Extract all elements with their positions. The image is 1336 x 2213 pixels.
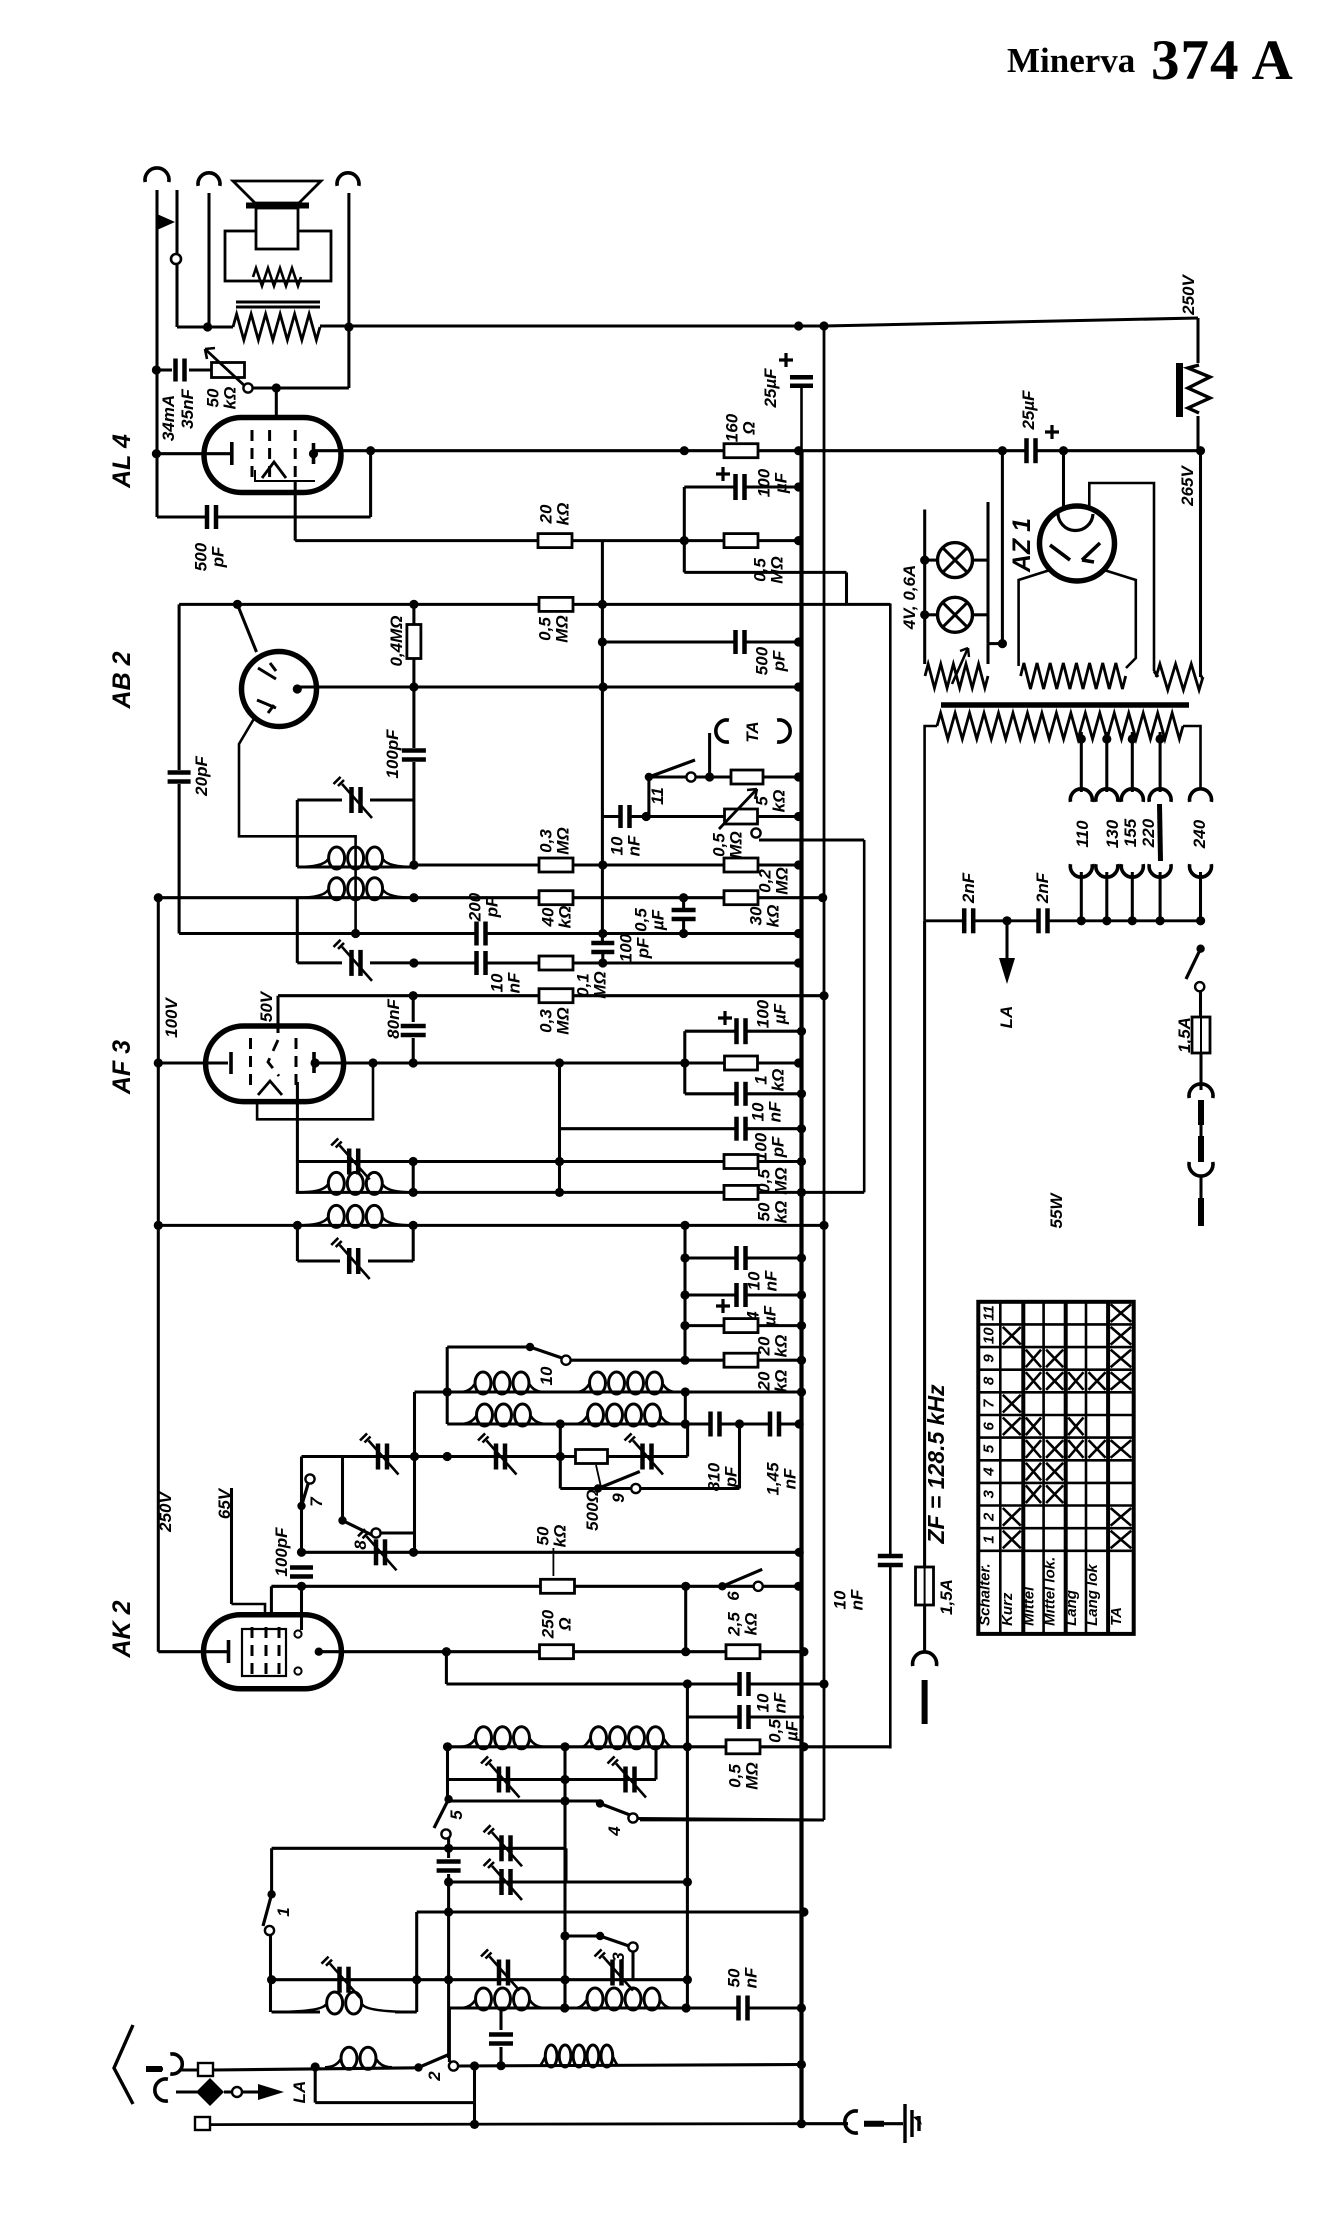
wire 0.5uF2 branch (686, 1684, 689, 1717)
wire AB2 return row (684, 571, 846, 574)
wire screen 50V row (278, 994, 824, 997)
wire bypass right (473, 2066, 476, 2125)
wire tap 130 upper (1105, 732, 1108, 792)
wire sw8 out (380, 1531, 415, 1534)
label 500pF (191, 542, 227, 571)
svg-text:1,5A: 1,5A (1175, 1017, 1194, 1053)
junction (152, 365, 161, 374)
capacitor 100uF cathode (735, 474, 746, 500)
svg-text:1,5A: 1,5A (937, 1579, 956, 1615)
wire circle to arrow (242, 2090, 258, 2093)
wire trim pair row a (449, 1847, 566, 1850)
wire AL4 grid row (295, 539, 798, 542)
resistor 2.5k (726, 1645, 760, 1659)
svg-text:25µF: 25µF (1019, 390, 1038, 431)
wire band row left col (415, 1912, 418, 1980)
svg-text:500pF: 500pF (752, 646, 788, 675)
table headers (976, 1557, 1125, 1626)
label 160 (722, 413, 758, 442)
junction rail 603 (598, 600, 607, 609)
wire sw10 feed (447, 1345, 530, 1348)
junction 265V (1196, 446, 1205, 455)
leader 500ohm (596, 1465, 601, 1487)
wire 20k a row (685, 1324, 802, 1327)
wire AVC row (179, 932, 799, 935)
wire left rail mid (157, 898, 160, 1652)
svg-text:250V: 250V (1179, 273, 1198, 315)
ground connector hook (845, 2111, 858, 2133)
wire IF1 right column b (412, 762, 415, 867)
junction (409, 1548, 418, 1557)
tube AL4 grid2 dash (268, 430, 271, 481)
switch 6 (718, 1582, 726, 1590)
svg-text:11: 11 (980, 1305, 997, 1321)
wire right col to row2 (686, 1980, 689, 2008)
wire 25uF2 to heater (1001, 451, 1004, 644)
svg-text:265V: 265V (1178, 464, 1197, 506)
mains plug pin left (922, 1680, 928, 1724)
wire IF2 trim2 right (368, 1259, 413, 1262)
label 0.2M (755, 867, 791, 894)
switch 3 (596, 1932, 604, 1940)
junction TA (705, 772, 714, 781)
resistor 1k (725, 1056, 758, 1070)
wire IF2 pri loop right (412, 1225, 415, 1261)
label 1k (751, 1069, 787, 1092)
wire mains left lead (923, 921, 926, 1567)
wire connector mid (1199, 1125, 1202, 1136)
tube AK2 cathode (227, 1640, 231, 1663)
tube AL4 envelope (204, 418, 341, 493)
switch 8 (338, 1516, 346, 1524)
svg-text:Kurz: Kurz (999, 1592, 1016, 1626)
pot 0.5M wiper circle (751, 828, 760, 837)
svg-text:20kΩ: 20kΩ (754, 1370, 790, 1393)
junction (681, 1387, 690, 1396)
capacitor 35nF (175, 359, 186, 382)
capacitor 80nF (401, 1025, 426, 1036)
wire AL4 anode row (314, 449, 1201, 452)
resistor 30k (724, 891, 758, 905)
svg-text:220: 220 (1139, 818, 1158, 848)
junction (680, 1253, 689, 1262)
tube AK2 grid pin top (294, 1630, 301, 1637)
label 1.45nF (763, 1462, 799, 1496)
junction (556, 1452, 565, 1461)
label 500pF no2 (752, 646, 788, 675)
svg-text:100pF: 100pF (272, 1527, 291, 1577)
junction (560, 2003, 569, 2012)
svg-text:9: 9 (609, 1493, 628, 1503)
svg-text:5: 5 (447, 1810, 466, 1820)
wire anode branch (445, 1652, 448, 1684)
wire IF1 trim2 right (370, 961, 414, 964)
svg-text:30kΩ: 30kΩ (746, 905, 782, 928)
svg-text:110: 110 (1073, 820, 1092, 848)
mains plug pin right (1198, 1198, 1204, 1226)
label 25uF no2 (1019, 390, 1038, 431)
wire mid col rf (563, 1747, 566, 2008)
junction (496, 2061, 505, 2070)
resistor 160 (724, 444, 758, 458)
svg-text:200pF: 200pF (465, 892, 501, 922)
junction 603 rail2 (598, 637, 607, 646)
tap 155 lower hook (1121, 864, 1143, 877)
speaker connector hook 3 (337, 173, 359, 186)
coil rf 1b (582, 1739, 590, 1747)
junction (681, 1647, 690, 1656)
junction (683, 1679, 692, 1688)
wire sw1 col b (269, 1935, 272, 2012)
label 30k (746, 905, 782, 928)
svg-text:20kΩ: 20kΩ (536, 503, 572, 526)
svg-text:1kΩ: 1kΩ (751, 1069, 787, 1092)
svg-text:0,5MΩ: 0,5MΩ (754, 1167, 790, 1194)
capacitor padder (437, 1861, 461, 1872)
tube AB2 diode2 (257, 700, 276, 713)
LA circle (232, 2087, 242, 2097)
plus of 100uF no2 (718, 1011, 732, 1025)
wire right col rf (686, 1747, 689, 1980)
junction (409, 893, 418, 902)
wire top line slanted (824, 318, 1198, 326)
wire IF1 trimmer row left (297, 798, 342, 801)
svg-text:0,5MΩ: 0,5MΩ (725, 1762, 761, 1789)
wire 65V elbow (232, 1604, 266, 1616)
tube AF3 grid stroke (268, 1040, 279, 1076)
wire IF2 right column (412, 1162, 415, 1193)
junction (443, 1742, 452, 1751)
resistor 500ohm (576, 1450, 608, 1464)
wire 0.5uF2 row (687, 1715, 804, 1718)
tap 240 upper hook (1190, 789, 1212, 802)
svg-text:7: 7 (980, 1399, 997, 1408)
wire AB2 top rail (179, 603, 890, 606)
tube AF3 shield loop (257, 1063, 373, 1119)
trimmer IF1 secondary (349, 950, 354, 976)
trimmer osc sw a (499, 1835, 504, 1861)
mains blade 2 (195, 2117, 210, 2130)
wire TA row (649, 775, 799, 778)
switch 1 (267, 1890, 275, 1898)
wire osc mid col (559, 1424, 562, 1489)
junction bus (797, 1321, 806, 1330)
wire AF3 cathode lead (158, 1061, 228, 1064)
wire mains bottom row (925, 919, 1201, 922)
resistor 40k (539, 891, 573, 905)
svg-text:8: 8 (351, 1540, 370, 1550)
wire 35nF to pot (189, 368, 212, 371)
wire sw4 to bus2 (638, 1819, 825, 1821)
junction (443, 1387, 452, 1396)
wire diode load row (414, 863, 799, 866)
junction (683, 1877, 692, 1886)
wire sw6 branch (684, 1586, 687, 1651)
potentiometer 50k (212, 363, 245, 378)
junction bus (794, 1582, 803, 1591)
wire AZ1 second anode (1089, 483, 1154, 671)
TA hook right (777, 720, 790, 742)
wire 500pF row (157, 515, 206, 518)
resistor 0.2M (724, 858, 758, 872)
wire heater right join (1154, 671, 1158, 677)
tap 240 lower hook (1190, 864, 1212, 877)
tube label AF3 (108, 1040, 136, 1095)
resistor 50k gridleak (541, 1579, 575, 1593)
antenna hook upper (170, 2054, 182, 2074)
lamp pilot 2 (938, 597, 973, 632)
label 4 (605, 1826, 624, 1837)
pot 50k wiper circle (243, 383, 252, 392)
svg-text:8: 8 (980, 1376, 997, 1385)
tube AL4 cathode (230, 442, 234, 465)
label 34mA (159, 395, 178, 441)
svg-text:Schalter.: Schalter. (976, 1563, 993, 1626)
svg-text:10nF: 10nF (748, 1101, 784, 1122)
wire AL4 cathode lead (157, 452, 230, 455)
trimmer osc pad (374, 1539, 379, 1565)
junction (409, 958, 418, 967)
coil wavetrap (540, 2057, 545, 2065)
jack contact circle (171, 254, 181, 264)
label 50V (257, 990, 276, 1022)
svg-text:AB 2: AB 2 (108, 651, 136, 709)
wire 0.5uF branch (682, 898, 685, 934)
wire osc row1 (415, 1390, 802, 1393)
wire lamp1 left lead (925, 559, 938, 562)
wire sw10 drop (446, 1347, 449, 1392)
label 8 (351, 1540, 370, 1550)
label 9 (609, 1493, 628, 1503)
wire AZ1 anode top (1062, 451, 1065, 508)
tube AL4 grid3 dash (294, 430, 297, 481)
tube AK2 dash1 (251, 1627, 254, 1677)
label 0.1M (573, 971, 609, 998)
junction bus (794, 772, 803, 781)
label 80nF (384, 999, 403, 1039)
label 155 (1121, 818, 1140, 847)
junction 25uF2 left (998, 446, 1007, 455)
transformer core bar (941, 702, 1189, 708)
label 50kOhm pot (203, 387, 239, 410)
svg-text:55W: 55W (1047, 1192, 1066, 1229)
label 0.5M agc2 (725, 1762, 761, 1789)
svg-text:6: 6 (724, 1591, 743, 1601)
junction tap 155 (1128, 734, 1137, 743)
trimmer osc c (640, 1444, 645, 1470)
arrow LA mains (999, 958, 1015, 984)
coil IF2 primary (297, 1218, 327, 1226)
svg-text:0,5µF: 0,5µF (631, 908, 667, 932)
junction bus (794, 536, 803, 545)
junction tap 220 (1156, 734, 1165, 743)
junction bus2 foot (819, 1679, 828, 1688)
plus of 25uF (779, 353, 793, 367)
trimmer IF2 secondary (347, 1248, 352, 1274)
capacitor 0.5uF no2 (739, 1705, 750, 1729)
junction bus (795, 1419, 804, 1428)
trimmer rf a (497, 1767, 502, 1793)
junction 25uF2 right (1059, 446, 1068, 455)
wire return drop (845, 572, 848, 604)
capacitor 0.5uF (672, 909, 696, 920)
table X marks (1003, 1304, 1131, 1548)
antenna hook lower (155, 2079, 168, 2101)
junction bus (794, 637, 803, 646)
svg-text:7: 7 (307, 1496, 326, 1507)
switch 4 (596, 1799, 604, 1807)
svg-text:LA: LA (290, 2081, 309, 2104)
wire IF1 sec row (159, 896, 823, 899)
junction tap 130 bottom (1102, 916, 1111, 925)
junction bus (797, 1290, 806, 1299)
wire AK2 grid col b (300, 1506, 303, 1552)
svg-text:10nF: 10nF (744, 1270, 780, 1291)
trimmer rf c (497, 1960, 502, 1986)
svg-text:100pF: 100pF (383, 729, 402, 779)
junction bus2 (818, 893, 827, 902)
wire sw45 row (448, 1799, 601, 1802)
capacitor 10nF no5 (739, 1672, 750, 1696)
svg-text:4: 4 (605, 1826, 624, 1837)
label 50k osc (533, 1525, 569, 1548)
wire 80nF branch (412, 996, 415, 1022)
wire AZ1 fil left lead (1019, 570, 1050, 666)
junction (297, 1582, 306, 1591)
label 500ohm (583, 1489, 602, 1531)
svg-text:20kΩ: 20kΩ (754, 1335, 790, 1358)
wire main B+ bus thick (799, 450, 803, 2124)
resistor 50k agc (724, 1185, 758, 1199)
label 10 switch (537, 1366, 556, 1385)
junction (560, 1775, 569, 1784)
wire 265V drop (1199, 451, 1202, 677)
label 65V (215, 1487, 234, 1519)
wire after sw2 (458, 2065, 801, 2067)
svg-text:10nF: 10nF (753, 1692, 789, 1713)
wire 100uF2 row (685, 1030, 802, 1033)
wire bottom rail (210, 2122, 804, 2126)
wire IF1 trimmer row right (370, 798, 414, 801)
wire ZF line (889, 604, 892, 1749)
trimmer ant a (337, 1967, 342, 1993)
label 40k (538, 906, 574, 929)
wire bypass row (315, 2101, 474, 2104)
junction rail 0.4M (409, 600, 418, 609)
tube AF3 g1 dash (249, 1038, 252, 1090)
capacitor 100pF agc (591, 942, 614, 953)
svg-text:100µF: 100µF (754, 468, 790, 497)
wire lamp2 left lead (925, 613, 938, 616)
junction (444, 1907, 453, 1916)
fuse 1.5A right (1192, 1017, 1210, 1053)
wire AF3 anode row (315, 1061, 798, 1064)
svg-text:0,5µF: 0,5µF (765, 1719, 801, 1743)
pot 0.5M arrow (719, 789, 757, 829)
junction LA tap (1002, 916, 1011, 925)
junction bus (794, 446, 803, 455)
wire mid col to row2 (563, 1980, 566, 2008)
svg-text:0,3MΩ: 0,3MΩ (536, 1007, 572, 1034)
svg-text:100pF: 100pF (616, 933, 652, 962)
tube AL4 grid1 dash (251, 430, 254, 481)
wire IF2 primary row (158, 1224, 824, 1227)
tube AF3 anode dot (311, 1058, 320, 1067)
label 10nF no5 (753, 1692, 789, 1713)
label ZF (923, 1384, 949, 1545)
wire main B+ bus (800, 386, 803, 450)
junction left rail (154, 893, 163, 902)
svg-text:40kΩ: 40kΩ (538, 906, 574, 929)
junction (311, 2062, 320, 2071)
capacitor antenna series (489, 2034, 513, 2045)
wire 100uF row (684, 485, 798, 488)
tap 110 upper hook (1070, 789, 1092, 802)
junction (409, 991, 418, 1000)
label 3 (609, 1952, 628, 1962)
label 1.5A left (937, 1579, 956, 1615)
resistor 20k (538, 534, 572, 548)
svg-text:0,5MΩ: 0,5MΩ (709, 831, 745, 858)
svg-text:50V: 50V (257, 990, 276, 1022)
svg-text:1,45nF: 1,45nF (763, 1462, 799, 1496)
wire decoupling column (683, 1225, 686, 1360)
junction (679, 893, 688, 902)
ground connector pin (864, 2121, 884, 2127)
arrow LA antenna (258, 2084, 284, 2100)
resistor 0.5M rail (539, 597, 573, 611)
label 100pF if (383, 729, 402, 779)
label 4V 0.6A (900, 565, 919, 631)
wire bleeder to 265V row (1196, 416, 1199, 451)
junction anode row bus (794, 682, 803, 691)
junction (998, 639, 1007, 648)
capacitor 10nF no2 (736, 1082, 747, 1106)
label 0.4M (387, 615, 406, 666)
coil osc 1a (460, 1384, 474, 1392)
table switch numbers (980, 1305, 997, 1543)
wire sw3 row (565, 1934, 600, 1937)
coil ant tuned (272, 2004, 327, 2012)
junction (683, 1742, 692, 1751)
svg-text:1: 1 (980, 1535, 997, 1543)
wire tap 130 lower (1105, 872, 1108, 921)
resistor 0.4M (407, 625, 421, 659)
wire sw5 col (447, 1838, 450, 1858)
table switch grid (978, 1302, 1133, 1634)
junction bus (797, 1089, 806, 1098)
wire 603 column (601, 604, 604, 941)
tube AK2 anode dot (315, 1648, 323, 1656)
resistor 0.3M a (539, 858, 573, 872)
trimmer IF2 primary (347, 1149, 352, 1175)
wire 50V drop (276, 996, 279, 1033)
wire left rail from hook (155, 190, 158, 517)
svg-text:240: 240 (1190, 819, 1209, 849)
capacitor 25uF no2 (1026, 438, 1037, 463)
wire band row (417, 1910, 804, 1913)
wire ant tuned base l (272, 2010, 320, 2013)
wire lamp bottom row (988, 642, 1002, 645)
coil antenna primary (325, 2060, 340, 2068)
junction (560, 1742, 569, 1751)
resistor 20k a (724, 1319, 758, 1333)
svg-text:50kΩ: 50kΩ (533, 1525, 569, 1548)
wire tap 155 lower (1131, 872, 1134, 921)
wire AK2 grid inside (300, 1586, 303, 1630)
wire 603 column tail (601, 954, 604, 963)
wire ant tuned base r (395, 2010, 417, 2013)
